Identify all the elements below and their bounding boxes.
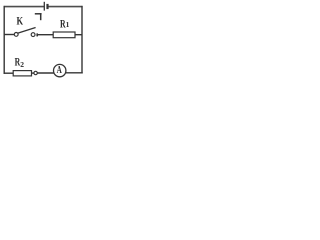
wire switch to R1	[38, 34, 53, 36]
wire ammeter to bottom-right corner	[66, 72, 83, 74]
wire switch stub from left wire	[4, 34, 14, 36]
svg-text:A: A	[57, 65, 63, 76]
ammeter A1 circle	[54, 64, 66, 76]
wire R1 to right wire	[75, 34, 82, 36]
wire R2 to terminal	[31, 72, 34, 74]
switch K contact tick	[36, 33, 38, 36]
switch K pivot circle	[14, 33, 18, 37]
svg-text:K: K	[17, 16, 24, 28]
wire bottom-left segment	[4, 72, 14, 74]
resistor R1 box	[53, 32, 75, 38]
switch K contact circle	[31, 33, 35, 37]
wire terminal to ammeter	[37, 72, 53, 74]
wire top-right segment	[48, 6, 83, 8]
terminal node circle	[34, 71, 37, 74]
battery B1 long plate	[43, 2, 45, 11]
svg-text:R1: R1	[60, 18, 70, 30]
wire left side	[3, 6, 5, 74]
switch K blade	[18, 28, 36, 34]
battery B1 short thick plate	[46, 4, 48, 9]
wire right side	[81, 6, 83, 74]
stray mark (7-shaped) vertical bar	[40, 13, 42, 20]
stray mark (7-shaped) horizontal bar	[35, 13, 42, 15]
resistor R2 box	[13, 71, 31, 76]
wire top-left segment	[4, 6, 44, 8]
